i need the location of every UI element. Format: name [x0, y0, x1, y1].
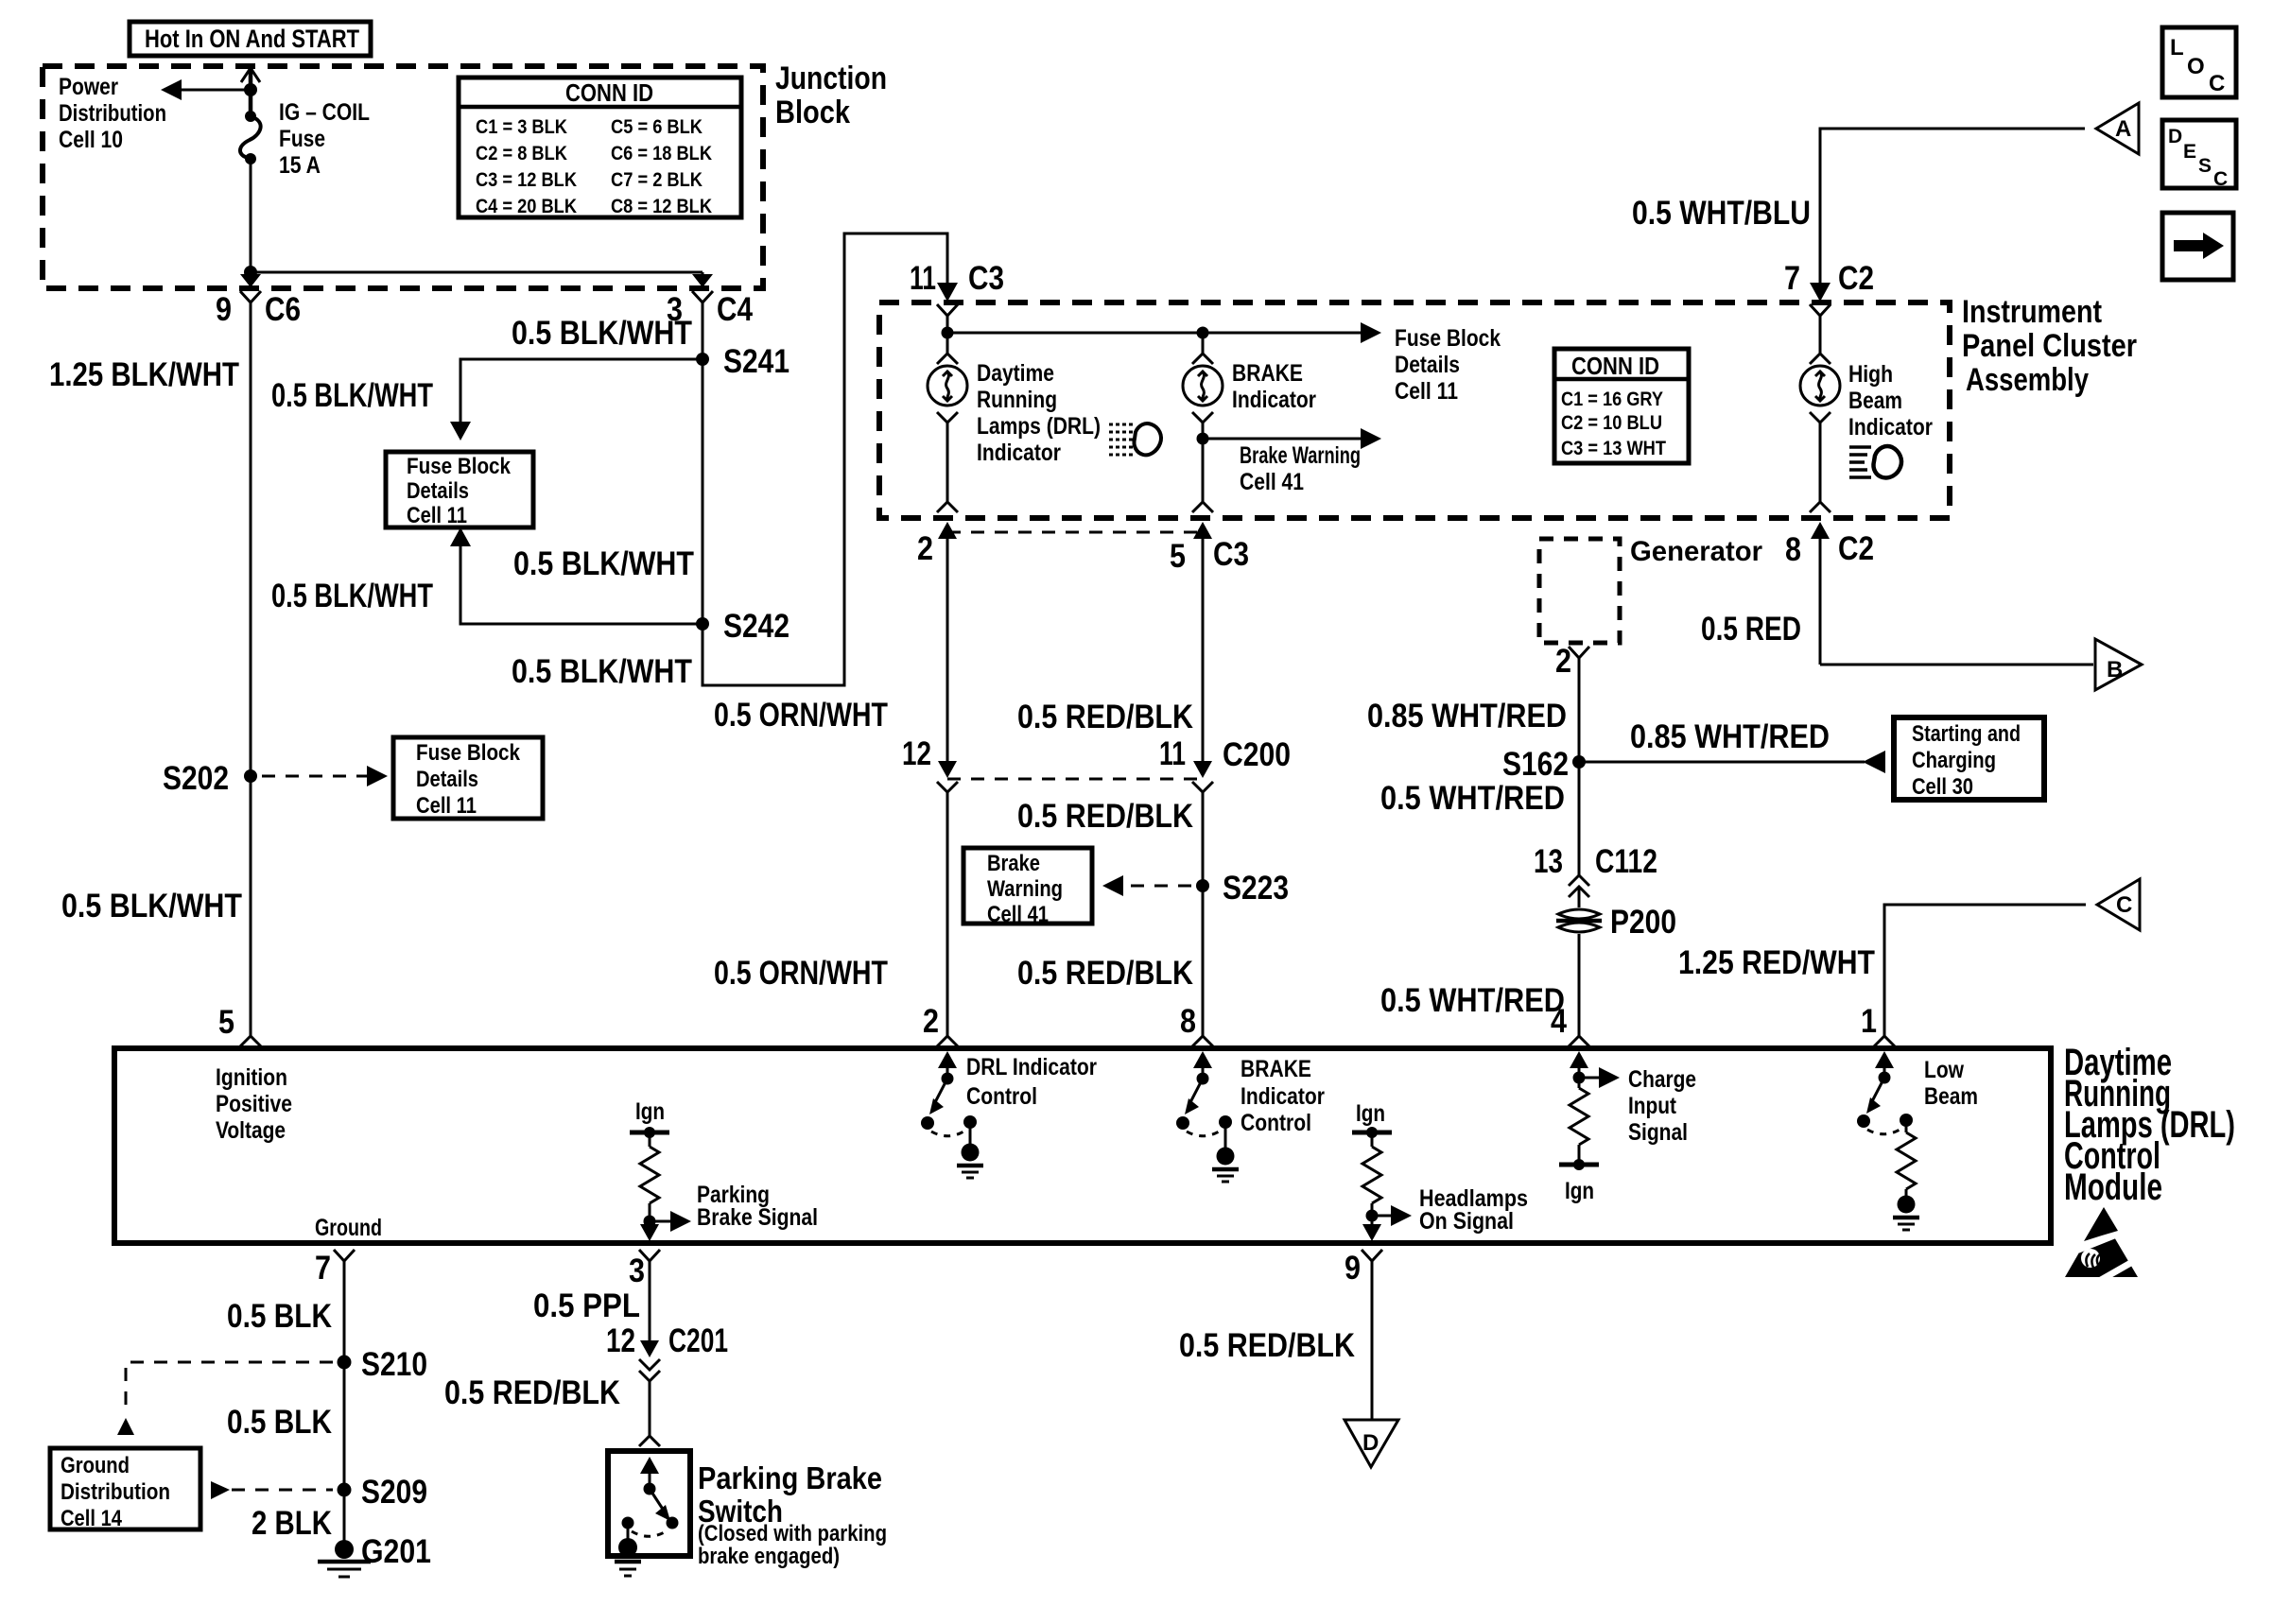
resistor: Parking Brake Signal (pin 3) [630, 1098, 691, 1241]
resistor: Charge Input Signal (pin 4) [1559, 1051, 1620, 1204]
connector: module pin 7 (female) + label [315, 1250, 355, 1287]
svg-text:9: 9 [216, 291, 232, 328]
svg-text:Fuse: Fuse [279, 126, 325, 152]
off-page connector C [2097, 879, 2140, 930]
connector pin 9 C6 (female) [216, 291, 301, 328]
wire: C4 pin 3 down to S241 [702, 302, 704, 359]
wire: pin 8 C2 to off-page B [1820, 664, 2093, 666]
svg-text:0.5 ORN/WHT: 0.5 ORN/WHT [714, 955, 888, 992]
label: Brake Warning Cell 41 (cluster ref) [1240, 442, 1361, 495]
svg-text:0.85 WHT/RED: 0.85 WHT/RED [1367, 698, 1567, 734]
svg-text:IG – COIL: IG – COIL [279, 99, 370, 126]
svg-text:C2: C2 [1838, 260, 1874, 297]
svg-text:C2 = 8 BLK: C2 = 8 BLK [476, 142, 567, 164]
label: BRAKE Indicator Control [1241, 1056, 1325, 1136]
svg-text:C1 = 3 BLK: C1 = 3 BLK [476, 115, 567, 138]
switch: Low Beam (pin 1) [1857, 1051, 1919, 1230]
wire: DRL indicator to cluster pin 2 [937, 412, 958, 512]
label: Daytime Running Lamps (DRL) Control Module [2064, 1042, 2235, 1208]
svg-text:brake engaged): brake engaged) [698, 1544, 840, 1569]
svg-text:Beam: Beam [1924, 1083, 1978, 1110]
svg-text:Ignition: Ignition [216, 1064, 287, 1091]
svg-text:Warning: Warning [987, 876, 1063, 902]
svg-text:C6 = 18 BLK: C6 = 18 BLK [611, 142, 712, 164]
connector: module pin 5 (male chevron) [240, 1036, 261, 1046]
svg-text:C3 = 12 BLK: C3 = 12 BLK [476, 168, 577, 191]
svg-text:0.5 BLK/WHT: 0.5 BLK/WHT [512, 315, 692, 352]
svg-text:S223: S223 [1223, 870, 1289, 907]
svg-text:Fuse Block: Fuse Block [407, 454, 512, 479]
dashed reference: S210 to ground distribution [117, 1362, 333, 1435]
label: IG-COIL Fuse 15 A [279, 99, 370, 179]
splice S202 [163, 760, 257, 797]
svg-text:C1 = 16 GRY: C1 = 16 GRY [1561, 388, 1663, 410]
wire: off-page A to cluster pin 7 C2 (0.5 WHT/BLU) [1810, 129, 2085, 302]
svg-text:Brake: Brake [987, 851, 1040, 876]
splice S241 [696, 343, 789, 380]
ref box: Fuse Block Details Cell 11 (upper) [386, 452, 533, 528]
wire: S241 branch left and down into fuse block box [450, 359, 703, 441]
svg-text:3: 3 [629, 1253, 645, 1289]
label: Ignition Positive Voltage (module pin 5) [216, 1064, 292, 1144]
svg-text:C112: C112 [1595, 843, 1657, 880]
svg-text:Ign: Ign [635, 1098, 665, 1125]
svg-text:9: 9 [1345, 1250, 1361, 1287]
svg-text:0.5 RED/BLK: 0.5 RED/BLK [1017, 955, 1193, 992]
svg-text:B: B [2107, 657, 2123, 682]
svg-text:C3: C3 [968, 260, 1004, 297]
svg-text:D: D [1362, 1430, 1379, 1456]
svg-text:Details: Details [416, 767, 478, 792]
svg-text:On Signal: On Signal [1419, 1208, 1514, 1235]
label: Parking Brake Switch [698, 1460, 887, 1569]
wire: BRAKE indicator down to brake warning tap [1192, 412, 1213, 512]
svg-text:Indicator: Indicator [1848, 414, 1933, 441]
splice S223 [1196, 870, 1289, 907]
svg-text:C201: C201 [668, 1322, 728, 1359]
svg-text:Ign: Ign [1356, 1100, 1385, 1127]
svg-text:0.5 RED/BLK: 0.5 RED/BLK [1179, 1327, 1355, 1364]
svg-text:Distribution: Distribution [61, 1479, 170, 1505]
svg-text:C: C [2116, 892, 2132, 918]
svg-text:0.5 BLK: 0.5 BLK [227, 1298, 332, 1335]
connector row C3 (pins 2 and 5) below cluster [917, 522, 1249, 575]
svg-text:High: High [1848, 361, 1893, 388]
label: Instrument Panel Cluster Assembly [1962, 294, 2137, 398]
label: BRAKE Indicator [1232, 360, 1316, 413]
svg-text:Charging: Charging [1912, 748, 1996, 773]
svg-text:Fuse Block: Fuse Block [416, 740, 521, 766]
off-page connector D [1345, 1420, 1398, 1467]
connector: generator pin 2 (female) [1555, 643, 1589, 680]
svg-text:Ground: Ground [61, 1453, 130, 1478]
wire: fuse output down to branch node [250, 159, 252, 272]
connector: module pin 1 (male chevron) [1861, 1003, 1895, 1046]
svg-text:CONN ID: CONN ID [565, 78, 653, 107]
svg-text:S: S [2198, 155, 2212, 177]
svg-text:Panel Cluster: Panel Cluster [1962, 328, 2137, 364]
DRL control module box [114, 1048, 2051, 1243]
svg-text:BRAKE: BRAKE [1232, 360, 1303, 387]
connector: parking brake switch pin (male chevron) [639, 1436, 660, 1446]
wire: arrow down at C4 pin 3 [692, 272, 713, 287]
connector: cluster pin 7 female (inside) [1810, 304, 1831, 316]
connector: cluster pin 11 female (inside) [937, 304, 958, 316]
svg-text:E: E [2183, 141, 2196, 163]
instrument panel cluster dashed box [879, 302, 1950, 518]
splice S162 [1502, 746, 1586, 783]
svg-text:Starting and: Starting and [1912, 721, 2021, 747]
wire: arrow to Power Distribution (left) [161, 79, 251, 100]
wire: cluster pin 2 down to C200 pin 12 (0.5 ORN/WHT) [946, 535, 949, 766]
svg-text:Charge: Charge [1628, 1066, 1696, 1093]
svg-text:Cell 11: Cell 11 [1395, 378, 1458, 405]
label: Power Distribution Cell 10 [59, 74, 166, 153]
svg-text:S241: S241 [723, 343, 789, 380]
icon: high beam lamp symbol [1849, 446, 1901, 477]
svg-text:C2: C2 [1838, 530, 1874, 567]
label: Headlamps On Signal [1419, 1185, 1528, 1235]
svg-text:Distribution: Distribution [59, 100, 166, 127]
svg-text:8: 8 [1785, 531, 1801, 568]
svg-text:0.5 PPL: 0.5 PPL [533, 1287, 640, 1324]
svg-text:Junction: Junction [775, 60, 887, 96]
svg-text:C4: C4 [717, 291, 753, 328]
node: branch dot in junction block [244, 266, 257, 279]
node: dot at BRAKE indicator tap [1197, 327, 1209, 339]
connector row C200 (pins 12 and 11) [902, 735, 1291, 792]
splice S242 [696, 608, 789, 645]
svg-text:L: L [2170, 35, 2184, 60]
wire: C200 pin 12 down to module pin 2 (0.5 ORN/WHT) [946, 792, 949, 1036]
off-page connector A [2096, 103, 2139, 154]
svg-text:8: 8 [1180, 1003, 1196, 1040]
wire: S242 detour to instrument cluster pin 11 C3 [703, 233, 958, 685]
svg-text:C4 = 20 BLK: C4 = 20 BLK [476, 195, 577, 217]
svg-text:5: 5 [1170, 538, 1186, 575]
svg-text:0.5 RED: 0.5 RED [1701, 611, 1801, 648]
ground G201 [318, 1533, 431, 1577]
svg-text:Cell 11: Cell 11 [407, 503, 467, 528]
svg-text:Generator: Generator [1630, 536, 1762, 567]
icon: DRL lamp symbol [1109, 423, 1161, 455]
connector C201 pin 12 [606, 1322, 728, 1381]
svg-text:S242: S242 [723, 608, 789, 645]
node: dot at DRL indicator tap [942, 327, 954, 339]
wire: C201 to parking brake switch (0.5 RED/BLK) [649, 1381, 651, 1436]
connector pin 3 C4 (female) [667, 291, 753, 328]
svg-text:0.5 BLK/WHT: 0.5 BLK/WHT [271, 377, 433, 414]
dashed reference arrow S202 to fuse block details [262, 766, 388, 786]
ref box: Brake Warning Cell 41 [963, 848, 1092, 927]
wire: module pin 9 to off-page D (0.5 RED/BLK) [1371, 1261, 1374, 1420]
svg-text:Cell 10: Cell 10 [59, 127, 123, 153]
connector C112 pin 13 (double chevron) [1534, 843, 1657, 907]
label: DRL Indicator Control [966, 1054, 1097, 1110]
svg-text:7: 7 [1784, 260, 1800, 297]
svg-text:Cell 14: Cell 14 [61, 1506, 123, 1531]
svg-text:Cell 41: Cell 41 [1240, 469, 1304, 495]
svg-text:C200: C200 [1223, 736, 1291, 773]
svg-text:2: 2 [917, 530, 933, 567]
svg-text:0.5 WHT/RED: 0.5 WHT/RED [1380, 982, 1565, 1019]
label: Parking Brake Signal [697, 1182, 818, 1231]
svg-text:Block: Block [775, 95, 850, 130]
svg-text:11: 11 [1159, 735, 1186, 772]
svg-text:S210: S210 [361, 1346, 427, 1383]
svg-text:DRL Indicator: DRL Indicator [966, 1054, 1097, 1080]
svg-text:Control: Control [1241, 1110, 1311, 1136]
junction block dashed box [43, 66, 763, 288]
lamp: Daytime Running Lamps (DRL) Indicator [928, 333, 967, 406]
svg-text:C: C [2213, 168, 2228, 190]
svg-text:1.25 RED/WHT: 1.25 RED/WHT [1678, 944, 1875, 981]
svg-text:Indicator: Indicator [1232, 387, 1316, 413]
svg-text:Details: Details [407, 478, 469, 504]
svg-text:0.85 WHT/RED: 0.85 WHT/RED [1630, 718, 1830, 755]
svg-text:Module: Module [2064, 1166, 2162, 1208]
svg-text:Brake Warning: Brake Warning [1240, 442, 1361, 469]
wire: S162 to Starting and Charging (0.85 WHT/RED) [1579, 751, 1885, 773]
svg-text:1: 1 [1861, 1003, 1877, 1040]
svg-text:Voltage: Voltage [216, 1117, 286, 1144]
svg-text:0.5 WHT/BLU: 0.5 WHT/BLU [1632, 195, 1811, 232]
svg-text:0.5 BLK/WHT: 0.5 BLK/WHT [513, 545, 694, 582]
wire: module pin 3 to C201 (0.5 PPL) [649, 1261, 651, 1342]
wire: generator pin 2 down to S162 (0.85 WHT/RED) [1578, 658, 1581, 762]
svg-text:13: 13 [1534, 843, 1563, 880]
wire: module pin 7 ground run (0.5 BLK) [343, 1261, 346, 1549]
table: CONN ID (junction block) [459, 78, 741, 217]
wire: S241 to S242 [702, 359, 704, 624]
svg-text:S162: S162 [1502, 746, 1569, 783]
off-page connector B [2095, 639, 2142, 690]
svg-text:2: 2 [1555, 643, 1571, 680]
svg-text:0.5 WHT/RED: 0.5 WHT/RED [1380, 780, 1565, 817]
svg-text:5: 5 [218, 1004, 234, 1041]
svg-text:C6: C6 [265, 291, 301, 328]
connector: module pin 4 (male chevron) [1551, 1003, 1589, 1046]
fuse F1: IG-COIL Fuse 15 A [240, 111, 261, 164]
generator dashed box [1539, 539, 1620, 643]
svg-text:0.5 RED/BLK: 0.5 RED/BLK [1017, 798, 1193, 835]
dashed reference arrow: ground distribution to S209 [211, 1481, 333, 1499]
svg-text:C3: C3 [1213, 536, 1249, 573]
svg-text:C2 = 10 BLU: C2 = 10 BLU [1561, 411, 1662, 434]
label: Fuse Block Details Cell 11 (cluster ref) [1395, 325, 1501, 405]
svg-text:Details: Details [1395, 352, 1460, 378]
switch: Parking Brake Switch [608, 1451, 690, 1576]
node: dot at brake warning tap [1197, 433, 1209, 445]
label: pin 7 C2 [1784, 260, 1874, 297]
wire: cluster bus from pin 11 to fuse block details arrow [947, 316, 1381, 343]
svg-text:S202: S202 [163, 760, 229, 797]
svg-text:A: A [2115, 116, 2131, 142]
label: Junction Block [775, 60, 887, 130]
svg-text:Control: Control [966, 1083, 1037, 1110]
svg-text:15 A: 15 A [279, 152, 321, 179]
svg-text:Input: Input [1628, 1093, 1677, 1119]
label box: Hot In ON And START [130, 22, 371, 56]
wire: high beam indicator down to cluster pin 8 C2 [1810, 412, 1831, 512]
svg-text:C8 = 12 BLK: C8 = 12 BLK [611, 195, 712, 217]
icon: ESD sensitive symbol [2065, 1207, 2141, 1280]
lamp: BRAKE Indicator [1183, 333, 1223, 406]
wire: C200 pin 11 down to module pin 8 (0.5 RED/BLK) [1202, 792, 1205, 1036]
wire: branch arrow down to C6 pin 9 [240, 272, 261, 287]
ref box: DESC [2162, 120, 2236, 190]
wire: S242 branch left and up into fuse block box [450, 527, 703, 624]
svg-text:Signal: Signal [1628, 1119, 1688, 1146]
table: CONN ID (cluster) [1554, 349, 1689, 463]
svg-text:P200: P200 [1610, 904, 1676, 941]
connector: module pin 2 (male chevron) [937, 1036, 958, 1046]
svg-text:BRAKE: BRAKE [1241, 1056, 1311, 1082]
svg-text:0.5 BLK/WHT: 0.5 BLK/WHT [512, 653, 692, 690]
svg-text:Fuse Block: Fuse Block [1395, 325, 1501, 352]
svg-text:Ign: Ign [1565, 1178, 1594, 1204]
grommet P200 [1556, 904, 1676, 941]
svg-text:2 BLK: 2 BLK [252, 1505, 332, 1542]
svg-text:Cell 11: Cell 11 [416, 793, 477, 819]
svg-text:(Closed with parking: (Closed with parking [698, 1521, 887, 1546]
svg-text:1.25 BLK/WHT: 1.25 BLK/WHT [49, 356, 239, 393]
connector: module pin 8 (male chevron) [1192, 1036, 1213, 1046]
ref box: LOC [2162, 27, 2236, 97]
svg-text:0.5 RED/BLK: 0.5 RED/BLK [1017, 699, 1193, 735]
connector: cluster pin 8 C2 exit [1785, 522, 1874, 665]
label: Daytime Running Lamps (DRL) Indicator [977, 360, 1101, 466]
svg-text:7: 7 [315, 1250, 331, 1287]
wire: C6 pin 9 down to DRL module pin 5 (1.25/0.5 BLK/WHT) [250, 302, 252, 1036]
resistor: Headlamps On Signal (pin 9) [1352, 1100, 1412, 1241]
svg-text:0.5 RED/BLK: 0.5 RED/BLK [444, 1374, 620, 1411]
switch: DRL Indicator Control (pin 2) [921, 1051, 983, 1178]
label: Low Beam [1924, 1057, 1978, 1110]
wire: branch across junction block to C4 pin 3 [251, 271, 703, 274]
svg-text:Parking Brake: Parking Brake [698, 1460, 882, 1495]
svg-text:Daytime: Daytime [977, 360, 1054, 387]
svg-text:O: O [2187, 54, 2205, 79]
wire: arrow to Brake Warning Cell 41 (cluster ref) [1203, 428, 1381, 449]
svg-text:Assembly: Assembly [1966, 362, 2089, 398]
svg-text:Indicator: Indicator [977, 440, 1061, 466]
ref box: Fuse Block Details Cell 11 (lower) [393, 737, 543, 819]
ref box: arrow [2162, 213, 2233, 280]
svg-text:C3 = 13 WHT: C3 = 13 WHT [1561, 437, 1666, 459]
svg-text:D: D [2168, 126, 2182, 147]
label: Charge Input Signal [1628, 1066, 1696, 1146]
wire: S162 down to C112 pin 13 (0.5 WHT/RED) [1578, 762, 1581, 875]
label: High Beam Indicator [1848, 361, 1933, 441]
svg-text:4: 4 [1551, 1003, 1567, 1040]
dashed reference arrow S223 to brake warning box [1102, 875, 1191, 896]
svg-text:0.5 ORN/WHT: 0.5 ORN/WHT [714, 697, 888, 734]
svg-text:CONN ID: CONN ID [1571, 352, 1659, 380]
ref box: Ground Distribution Cell 14 [50, 1448, 200, 1531]
splice S209 [338, 1474, 428, 1511]
svg-text:Lamps (DRL): Lamps (DRL) [977, 413, 1101, 440]
splice S210 [338, 1346, 428, 1383]
svg-text:Cell 41: Cell 41 [987, 902, 1049, 927]
node: junction dot at power distribution tap [244, 83, 257, 96]
lamp: High Beam Indicator [1800, 316, 1840, 406]
svg-text:0.5 BLK: 0.5 BLK [227, 1404, 332, 1441]
svg-text:Running: Running [977, 387, 1057, 413]
switch: BRAKE Indicator Control (pin 8) [1176, 1051, 1239, 1182]
svg-text:S209: S209 [361, 1474, 427, 1511]
svg-text:11: 11 [910, 260, 936, 297]
ref box: Starting and Charging Cell 30 [1894, 717, 2044, 800]
svg-text:Indicator: Indicator [1241, 1083, 1325, 1110]
svg-text:G201: G201 [361, 1533, 431, 1570]
svg-text:Beam: Beam [1848, 388, 1902, 414]
connector: module pin 3 (female) + label [629, 1250, 660, 1289]
label: pin 11 C3 (cluster) [910, 260, 1004, 297]
wire: cluster pin 5 down to C200 pin 11 (0.5 RED/BLK) [1202, 535, 1205, 766]
svg-text:Positive: Positive [216, 1091, 292, 1117]
svg-text:0.5 BLK/WHT: 0.5 BLK/WHT [61, 888, 242, 924]
svg-text:Ground: Ground [315, 1215, 382, 1241]
svg-text:Cell 30: Cell 30 [1912, 774, 1973, 800]
wire: off-page C to module pin 1 (1.25 RED/WHT) [1884, 905, 2086, 1036]
svg-text:12: 12 [902, 735, 931, 772]
svg-text:12: 12 [606, 1322, 635, 1359]
svg-text:Hot In ON And START: Hot In ON And START [145, 25, 359, 53]
svg-text:Brake Signal: Brake Signal [697, 1204, 818, 1231]
svg-text:C: C [2209, 71, 2225, 96]
wire: feed into junction block top (arrow up) [241, 68, 260, 116]
svg-text:C7 = 2 BLK: C7 = 2 BLK [611, 168, 703, 191]
svg-text:0.5 BLK/WHT: 0.5 BLK/WHT [271, 578, 433, 614]
connector: module pin 9 (female) + label [1345, 1250, 1382, 1287]
svg-text:Low: Low [1924, 1057, 1964, 1083]
svg-text:Power: Power [59, 74, 118, 100]
svg-text:2: 2 [923, 1003, 939, 1040]
svg-text:C5 = 6 BLK: C5 = 6 BLK [611, 115, 703, 138]
wire: P200 down to module pin 4 (0.5 WHT/RED) [1578, 934, 1581, 1036]
svg-text:Instrument: Instrument [1962, 294, 2102, 330]
